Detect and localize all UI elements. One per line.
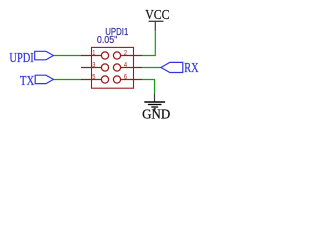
svg-text:1: 1 — [92, 48, 95, 57]
svg-text:3: 3 — [92, 60, 95, 69]
svg-text:GND: GND — [142, 108, 170, 123]
svg-text:6: 6 — [124, 72, 127, 81]
svg-text:RX: RX — [184, 61, 198, 76]
svg-text:0.05": 0.05" — [97, 35, 118, 46]
svg-text:5: 5 — [92, 72, 95, 81]
svg-text:2: 2 — [124, 48, 127, 57]
svg-text:VCC: VCC — [145, 8, 169, 23]
svg-text:4: 4 — [124, 60, 127, 69]
svg-text:UPDI: UPDI — [9, 51, 34, 66]
svg-text:TX: TX — [20, 74, 34, 89]
